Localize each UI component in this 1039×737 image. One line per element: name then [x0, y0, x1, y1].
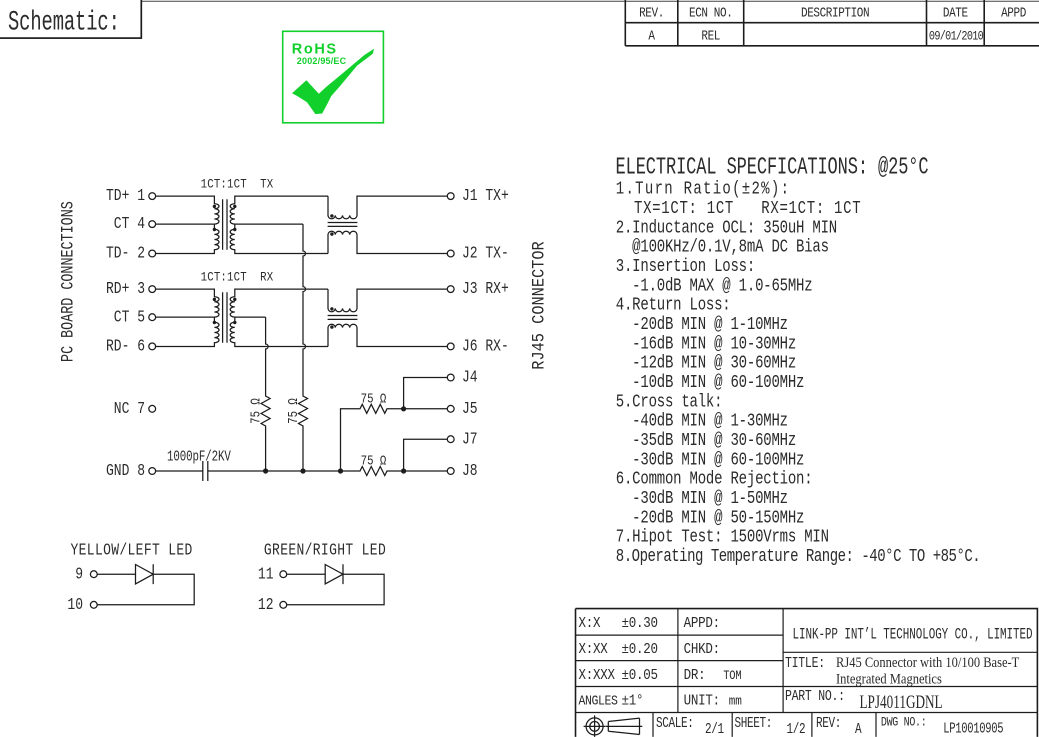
svg-text:J4: J4 [462, 369, 478, 387]
wire branch to J7 [404, 439, 448, 471]
svg-text:11: 11 [258, 566, 274, 584]
svg-text:J5: J5 [462, 401, 478, 419]
svg-text:-20dB MIN @ 1-10MHz: -20dB MIN @ 1-10MHz [616, 313, 788, 334]
pin 9 terminal [90, 571, 97, 578]
svg-text:1CT:1CT RX: 1CT:1CT RX [201, 269, 274, 284]
svg-text:-30dB MIN @ 1-50MHz: -30dB MIN @ 1-50MHz [616, 487, 788, 508]
svg-text:09/01/2010: 09/01/2010 [929, 29, 984, 43]
svg-text:CT 4: CT 4 [114, 216, 145, 234]
svg-text:X:X: X:X [579, 616, 602, 632]
svg-text:mm: mm [729, 694, 742, 709]
svg-text:75 Ω: 75 Ω [286, 398, 301, 424]
pin RD+ 3 terminal [149, 286, 156, 293]
svg-text:J8: J8 [462, 463, 478, 481]
electrical specifications text [616, 178, 980, 567]
pin J7 terminal [447, 436, 454, 443]
junction node dots [263, 468, 268, 473]
pin GND 8 terminal [149, 468, 156, 475]
svg-text:1CT:1CT TX: 1CT:1CT TX [201, 176, 274, 191]
svg-text:-10dB MIN @ 60-100MHz: -10dB MIN @ 60-100MHz [616, 371, 804, 392]
title block frame [576, 609, 1038, 737]
svg-text:75 Ω: 75 Ω [361, 391, 387, 406]
svg-text:2002/95/EC: 2002/95/EC [297, 56, 347, 66]
pin J1 terminal [447, 193, 454, 200]
svg-text:-30dB MIN @ 60-100MHz: -30dB MIN @ 60-100MHz [616, 449, 804, 470]
pin CT 5 terminal [149, 314, 156, 321]
RoHS logo box [283, 31, 384, 123]
svg-text:APPD: APPD [1001, 6, 1026, 21]
svg-text:10: 10 [67, 597, 83, 615]
schematic title box [0, 0, 141, 39]
wire RX secondary center tap to node [235, 316, 266, 318]
svg-text:RD- 6: RD- 6 [106, 338, 145, 356]
wire GND pin to capacitor [156, 470, 203, 472]
svg-text:-1.0dB MAX @ 1.0-65MHz: -1.0dB MAX @ 1.0-65MHz [616, 275, 813, 296]
svg-text:APPD:: APPD: [684, 616, 720, 632]
resistor R2 75ohm vertical with wire and hops [299, 224, 308, 471]
svg-text:GND 8: GND 8 [106, 463, 145, 481]
pin CT 4 terminal [149, 221, 156, 228]
pin J8 terminal [447, 468, 454, 475]
LED D2 green diode [287, 564, 384, 605]
svg-text:PC BOARD CONNECTIONS: PC BOARD CONNECTIONS [58, 201, 78, 362]
pin NC 7 terminal [149, 405, 156, 412]
svg-text:PART NO.:: PART NO.: [785, 688, 845, 705]
svg-text:75 Ω: 75 Ω [361, 453, 387, 468]
svg-text:5.Cross talk:: 5.Cross talk: [616, 391, 723, 412]
pin J5 terminal [447, 405, 454, 412]
svg-text:1.Turn Ratio(±2%):: 1.Turn Ratio(±2%): [616, 178, 790, 199]
svg-text:DATE: DATE [943, 6, 968, 21]
svg-text:A: A [648, 28, 655, 43]
pin 11 terminal [280, 571, 287, 578]
svg-text:LP10010905: LP10010905 [943, 720, 1003, 737]
svg-text:±0.20: ±0.20 [622, 642, 658, 658]
svg-text:9: 9 [75, 566, 83, 584]
svg-text:-40dB MIN @ 1-30MHz: -40dB MIN @ 1-30MHz [616, 410, 788, 431]
svg-text:CHKD:: CHKD: [684, 642, 720, 658]
pin 10 terminal [90, 601, 97, 608]
svg-text:J2 TX-: J2 TX- [462, 245, 509, 263]
svg-text:UNIT:: UNIT: [684, 694, 720, 710]
svg-text:-16dB MIN @ 10-30MHz: -16dB MIN @ 10-30MHz [616, 333, 796, 354]
svg-text:-35dB MIN @ 30-60MHz: -35dB MIN @ 30-60MHz [616, 429, 796, 450]
pin TD- 2 terminal [149, 250, 156, 257]
wire and resistor R3 75ohm to J5 [341, 404, 448, 471]
svg-text:±0.05: ±0.05 [622, 668, 658, 684]
svg-text:REV.: REV. [639, 6, 664, 21]
svg-text:2.Inductance OCL: 350uH MIN: 2.Inductance OCL: 350uH MIN [616, 217, 837, 238]
svg-text:TD+ 1: TD+ 1 [106, 188, 145, 206]
svg-text:GREEN/RIGHT LED: GREEN/RIGHT LED [264, 542, 386, 560]
pin J3 terminal [447, 286, 454, 293]
svg-text:±0.30: ±0.30 [622, 616, 658, 632]
svg-text:X:XXX: X:XXX [579, 668, 616, 684]
svg-text:REV:: REV: [816, 715, 841, 732]
svg-text:YELLOW/LEFT LED: YELLOW/LEFT LED [71, 542, 193, 560]
svg-text:SCALE:: SCALE: [656, 715, 693, 732]
pin TD+ 1 terminal [149, 193, 156, 200]
transformer T2 (RX) with choke [156, 289, 448, 346]
svg-text:TOM: TOM [723, 669, 742, 683]
svg-text:J1 TX+: J1 TX+ [462, 188, 509, 206]
svg-text:X:XX: X:XX [579, 642, 609, 658]
svg-text:7.Hipot Test: 1500Vrms MIN: 7.Hipot Test: 1500Vrms MIN [616, 526, 829, 547]
svg-text:2/1: 2/1 [705, 721, 724, 737]
svg-text:ANGLES: ANGLES [579, 693, 618, 709]
svg-text:TITLE:: TITLE: [785, 655, 825, 672]
svg-text:ECN NO.: ECN NO. [689, 6, 732, 21]
svg-text:CT 5: CT 5 [114, 309, 145, 327]
svg-text:75 Ω: 75 Ω [248, 398, 263, 424]
pin J6 terminal [447, 343, 454, 350]
wire TX secondary center tap to node [235, 223, 303, 225]
svg-text:A: A [855, 721, 862, 737]
svg-text:4.Return Loss:: 4.Return Loss: [616, 294, 731, 315]
svg-text:RD+ 3: RD+ 3 [106, 281, 145, 299]
svg-text:DR:: DR: [684, 668, 706, 684]
svg-text:DESCRIPTION: DESCRIPTION [801, 6, 869, 21]
svg-text:DWG NO.:: DWG NO.: [881, 715, 927, 730]
svg-text:J6 RX-: J6 RX- [462, 338, 509, 356]
svg-text:NC 7: NC 7 [114, 401, 145, 419]
svg-text:REL: REL [701, 28, 720, 43]
svg-text:RJ45 CONNECTOR: RJ45 CONNECTOR [529, 241, 549, 370]
transformer T1 (TX) with choke [156, 196, 448, 253]
sheet top border line [0, 0, 1039, 2]
svg-text:12: 12 [258, 597, 274, 615]
svg-text:1000pF/2KV: 1000pF/2KV [167, 448, 231, 465]
pin J2 terminal [447, 250, 454, 257]
capacitor C1 1000pF/2KV [203, 461, 208, 481]
pin J4 terminal [447, 374, 454, 381]
svg-text:6.Common Mode Rejection:: 6.Common Mode Rejection: [616, 468, 813, 489]
svg-text:J3 RX+: J3 RX+ [462, 281, 509, 299]
svg-text:±1°: ±1° [622, 694, 644, 710]
svg-text:1/2: 1/2 [787, 721, 806, 737]
svg-text:SHEET:: SHEET: [735, 715, 772, 732]
svg-text:J7: J7 [462, 431, 478, 449]
projection symbol [584, 715, 643, 737]
svg-text:8.Operating Temperature Range:: 8.Operating Temperature Range: -40°C TO … [616, 545, 980, 566]
svg-text:-20dB MIN @ 50-150MHz: -20dB MIN @ 50-150MHz [616, 507, 804, 528]
RoHS logo checkmark [292, 49, 374, 114]
svg-text:TX=1CT: 1CT RX=1CT: 1CT: TX=1CT: 1CT RX=1CT: 1CT [616, 197, 862, 218]
svg-text:-12dB MIN @ 30-60MHz: -12dB MIN @ 30-60MHz [616, 352, 796, 373]
pin 12 terminal [280, 601, 287, 608]
svg-text:@100KHz/0.1V,8mA DC Bias: @100KHz/0.1V,8mA DC Bias [616, 236, 829, 257]
svg-text:Integrated Magnetics: Integrated Magnetics [836, 671, 942, 687]
LED D1 yellow diode [97, 564, 194, 605]
wire branch to J4 [404, 378, 448, 409]
svg-text:LINK-PP INT’L TECHNOLOGY CO.,: LINK-PP INT’L TECHNOLOGY CO., LIMITED [793, 626, 1033, 643]
ground bus wire with resistor R4 75ohm to J8 [208, 467, 447, 476]
pin RD- 6 terminal [149, 343, 156, 350]
svg-text:Schematic:: Schematic: [8, 7, 120, 39]
svg-text:RJ45 Connector with 10/100 Bas: RJ45 Connector with 10/100 Base-T [836, 654, 1019, 670]
svg-text:LPJ4011GDNL: LPJ4011GDNL [860, 691, 943, 713]
svg-text:TD- 2: TD- 2 [106, 245, 145, 263]
revision table [625, 0, 1039, 46]
svg-text:3.Insertion Loss:: 3.Insertion Loss: [616, 255, 755, 276]
resistor R1 75ohm vertical with wire and hop [261, 317, 270, 471]
